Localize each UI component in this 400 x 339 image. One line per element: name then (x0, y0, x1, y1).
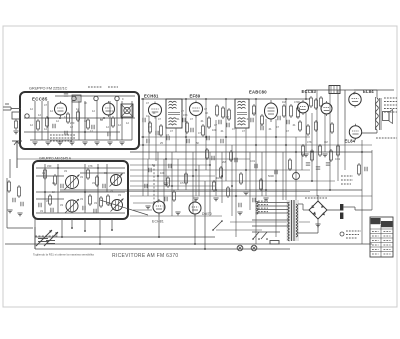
resistor R41 (54, 174, 57, 186)
tube V8 (153, 199, 165, 215)
capacitor C16 (187, 139, 189, 143)
capacitor C14 (147, 139, 149, 143)
wire drop (282, 152, 284, 200)
IF transformer T2 (166, 99, 182, 128)
wire drop (337, 90, 339, 181)
wire drop (225, 99, 227, 181)
capacitor C19 (251, 118, 253, 122)
svg-text:.01: .01 (176, 117, 180, 121)
value label (42, 171, 45, 175)
wire bus 6 (60, 189, 362, 191)
ground (145, 206, 150, 209)
wire AM bus 3 (36, 191, 125, 193)
wire AM vert 4 (97, 164, 99, 213)
resistor R36 (173, 190, 176, 202)
wire bottom vert 2 (61, 219, 63, 237)
ground (263, 198, 268, 201)
resistor R16 (290, 104, 293, 118)
junction dot (157, 164, 233, 187)
ground (107, 142, 112, 145)
svg-text:1M: 1M (282, 100, 286, 104)
AM tuner box GRUPPO AM (33, 161, 128, 219)
resistor R4 (87, 118, 90, 130)
wire bottom vert 3 (99, 219, 101, 244)
svg-text:.01: .01 (268, 127, 272, 131)
value label (152, 163, 155, 167)
capacitor C37 (239, 203, 241, 207)
wire AM vert 3 (84, 164, 86, 213)
wire FM vertical (96, 101, 98, 140)
junction dot (195, 169, 197, 171)
tube V2 ECH81 (149, 102, 162, 119)
resistor R18 (310, 96, 313, 108)
svg-text:RICEVITORE AM FM 6370: RICEVITORE AM FM 6370 (112, 253, 179, 259)
transformer T5 primary (288, 202, 290, 241)
wire drop (311, 113, 313, 181)
capacitor C46 (94, 209, 96, 213)
resistor R27 (307, 124, 310, 136)
ground (243, 192, 248, 195)
tube V1b ECC85 (103, 101, 115, 117)
svg-text:1M: 1M (216, 176, 220, 180)
resistor R21 (311, 149, 314, 162)
junction dot (61, 236, 206, 250)
value label (110, 189, 113, 193)
wire drop (163, 159, 165, 210)
ground (119, 142, 124, 145)
pilot lamp LP1 (237, 245, 243, 251)
wire drop (221, 152, 223, 203)
tube V9 EM70 (189, 200, 201, 216)
resistor R47 (8, 180, 11, 193)
wire FM vertical (41, 101, 43, 140)
ground antenna (13, 131, 18, 134)
junction dot (275, 136, 277, 138)
output transformer T4x (375, 97, 377, 130)
svg-text:ECH81: ECH81 (152, 220, 164, 224)
ground (45, 142, 50, 145)
capacitor C4b (65, 131, 67, 135)
wire drop (231, 145, 233, 216)
value label (100, 117, 103, 121)
value label (80, 197, 83, 201)
junction dot (255, 144, 257, 146)
wire drop (175, 128, 177, 152)
label EABC80 (249, 90, 267, 95)
value label (205, 111, 208, 115)
wire drop (324, 113, 326, 152)
resistor R13 (222, 106, 225, 119)
value label (180, 181, 184, 185)
wire FM vertical (116, 101, 118, 140)
svg-text:.01: .01 (152, 111, 156, 115)
value label (80, 175, 83, 179)
resistor R29 (331, 122, 334, 134)
wire drop (255, 99, 257, 244)
value label (76, 107, 79, 111)
wire drop (329, 93, 331, 190)
wire drop (361, 140, 363, 244)
wire bus 3 (17, 158, 250, 160)
label EM70 (202, 212, 212, 216)
tube V3 EF89 (190, 101, 203, 118)
capacitor C11 (227, 123, 229, 127)
note symbol (340, 232, 344, 236)
value label (160, 171, 165, 175)
value label (204, 107, 207, 111)
wire bus 4 (130, 169, 310, 171)
capacitor C44 (83, 206, 85, 210)
value label (146, 114, 150, 118)
value label (214, 123, 217, 127)
wire FM vertical (131, 101, 133, 140)
label ECH81 (144, 94, 159, 99)
value label (212, 128, 217, 132)
capacitor C19b (261, 126, 263, 130)
ground bridge (315, 224, 320, 227)
value label (126, 121, 129, 125)
capacitor C17 (207, 136, 209, 140)
table header right (381, 221, 393, 227)
junction dot (329, 189, 331, 191)
svg-text:2M: 2M (222, 160, 226, 164)
wire FM bus mid (24, 117, 135, 119)
svg-text:47K: 47K (183, 113, 188, 117)
svg-text:.01: .01 (246, 117, 250, 121)
wire stub (84, 219, 86, 232)
value label (92, 181, 95, 185)
ground (7, 210, 12, 213)
capacitor C42 (13, 198, 15, 202)
svg-text:1M: 1M (324, 140, 328, 144)
value label (84, 119, 87, 123)
wire bottom bus 1 (35, 236, 215, 238)
wire drop (157, 152, 159, 203)
coil L3 FM detector (124, 107, 130, 113)
wire stub (71, 219, 73, 229)
wire bottom vert 6 (204, 181, 206, 249)
value label (170, 129, 173, 133)
value label (92, 109, 95, 113)
svg-text:0.01: 0.01 (250, 159, 256, 163)
wire AM vert 2 (57, 164, 59, 213)
value label (44, 103, 47, 107)
coil L12 (65, 199, 79, 213)
value label (200, 119, 204, 123)
capacitor C8 (143, 118, 145, 122)
capacitor C9c (156, 131, 158, 135)
resistor R19b (320, 96, 323, 108)
value label (64, 115, 67, 119)
resistor R38 (227, 186, 230, 198)
resistor R39b (230, 150, 233, 162)
value label (112, 109, 115, 113)
coil L2 blob (72, 95, 81, 102)
ground (175, 212, 180, 215)
junction dot (215, 189, 217, 191)
tube V1a ECC85 (55, 101, 67, 117)
capacitor C23 cathode (365, 167, 367, 171)
svg-text:500K: 500K (268, 174, 274, 178)
wire drop (344, 120, 346, 170)
wire FM vertical (121, 101, 123, 140)
coil L10 AM aerial (65, 175, 80, 190)
capacitor C33 (149, 168, 151, 172)
capacitor C22 (326, 163, 330, 165)
wire FM vertical (109, 101, 111, 140)
value label (242, 129, 245, 133)
resistor R11 (208, 116, 211, 129)
balun box (12, 112, 20, 119)
value label (160, 141, 163, 145)
label rectifier (305, 197, 327, 199)
resistor R49 (107, 194, 110, 206)
label ECC85 (32, 97, 48, 102)
svg-text:EL84: EL84 (345, 139, 356, 144)
trimmer C3b (115, 96, 119, 100)
resistor R46 (100, 196, 103, 208)
band switch S3 (212, 220, 223, 231)
note text (346, 231, 361, 238)
value label (148, 125, 151, 129)
resistor R2 (67, 112, 70, 124)
capacitor C4 (92, 125, 94, 129)
wire bottom vert 1 (34, 219, 36, 249)
value label (106, 125, 109, 129)
junction dot (235, 195, 237, 197)
mains switch S2 (261, 232, 268, 240)
value label (260, 123, 263, 127)
ground (82, 142, 87, 145)
label output values (384, 98, 397, 112)
value label (183, 113, 188, 117)
capacitor C12 (278, 116, 280, 120)
value label (108, 203, 111, 207)
resistor R7 (149, 121, 152, 134)
capacitor C34 (169, 164, 171, 168)
junction dot (142, 98, 307, 100)
resistor R25 cathode (358, 163, 361, 176)
wire drop (142, 99, 144, 196)
capacitor C21 (316, 167, 320, 169)
value label (50, 109, 53, 113)
wire bottom bus 2 (5, 243, 372, 245)
resistor R10 (202, 124, 205, 137)
label V8 (152, 220, 164, 224)
value label (100, 118, 103, 122)
value label (181, 109, 184, 113)
svg-text:1K: 1K (52, 190, 55, 194)
ground (237, 212, 242, 215)
label cathode values (341, 176, 353, 184)
ground (69, 142, 74, 145)
resistor R5 (112, 116, 115, 128)
wire drop (261, 152, 263, 196)
wire drop (205, 99, 207, 170)
value label (30, 107, 33, 111)
ground (322, 154, 327, 157)
ground (303, 154, 308, 157)
wire HT top (298, 204, 309, 210)
output transformer T4 (376, 98, 381, 130)
resistor R34 (289, 158, 292, 171)
label feedback (376, 137, 397, 139)
wire FM vertical (71, 101, 73, 140)
resistor R24 (337, 144, 340, 157)
svg-text:ECH81: ECH81 (144, 94, 159, 99)
wire drop (295, 137, 297, 200)
tube V7 EL84 (349, 124, 361, 140)
capacitor C10 (219, 120, 221, 124)
wire link (133, 202, 155, 204)
label EF89 (190, 94, 201, 99)
capacitor C4c (108, 132, 110, 136)
svg-text:0.5: 0.5 (180, 181, 184, 185)
value label (196, 141, 199, 145)
value label (286, 129, 289, 133)
wire drop (301, 152, 303, 170)
resistor R33 (185, 172, 188, 185)
junction dot (44, 167, 99, 193)
value label (40, 209, 43, 213)
svg-text:.01: .01 (200, 119, 204, 123)
coil L13 (111, 199, 124, 212)
resistor R1 (46, 116, 49, 128)
pilot lamp LP2 (251, 245, 257, 251)
junction dot (311, 151, 313, 153)
capacitor C36 (165, 197, 167, 201)
ground (213, 198, 218, 201)
ground (32, 142, 37, 145)
choke Z1 (329, 86, 340, 94)
ground (163, 183, 168, 186)
resistor R28 (315, 120, 318, 132)
wire bus 2 (130, 151, 372, 153)
wire drop (147, 159, 149, 196)
trimmer C6 (25, 114, 29, 118)
value label (104, 171, 107, 175)
value label (158, 117, 161, 121)
antenna FM dipole (3, 104, 21, 110)
value label (94, 201, 97, 205)
value label (38, 113, 41, 117)
resistor R42 (87, 168, 90, 180)
value label (47, 164, 52, 168)
capacitor C18 (221, 139, 223, 143)
svg-text:GRUPPO AM 6345 A: GRUPPO AM 6345 A (39, 157, 72, 161)
wire FM bus top (55, 95, 135, 97)
value label (246, 117, 250, 121)
caption title (112, 253, 179, 259)
wire drop (285, 99, 287, 200)
tuning link dashed (153, 165, 155, 205)
wire FM vertical (47, 101, 49, 140)
svg-text:0.1: 0.1 (146, 114, 150, 118)
wire anode V7 (362, 130, 377, 133)
wire anode V6 (354, 90, 377, 98)
capacitor C42b (21, 202, 23, 206)
resistor R48 (18, 185, 21, 198)
resistor R26 (299, 120, 302, 132)
capacitor C31 (255, 164, 257, 168)
capacitor C45 (51, 208, 53, 212)
junction dot (265, 189, 267, 191)
svg-text:5K: 5K (196, 141, 199, 145)
svg-text:47K: 47K (307, 140, 312, 144)
svg-text:ECC83: ECC83 (302, 89, 317, 94)
value label (307, 140, 312, 144)
value label (276, 125, 279, 129)
junction dot (311, 180, 313, 182)
switch S1 (252, 232, 260, 240)
wire AM vert 5 (106, 164, 108, 192)
resistor R8 (160, 124, 163, 137)
trimmer C1 (72, 96, 76, 100)
wire FM bus vlow (30, 139, 132, 141)
wire bus 5 (130, 180, 335, 182)
wire link (133, 209, 152, 211)
resistor R37 (213, 180, 216, 192)
resistor R32 (260, 178, 263, 191)
wire link (216, 229, 262, 231)
antenna AM (12, 141, 22, 168)
junction dot (245, 169, 247, 171)
value label (252, 111, 255, 115)
capacitor C50 electrolytic (340, 204, 343, 211)
wire drop (316, 90, 318, 196)
value label (268, 174, 274, 178)
wire AM bus 2 (36, 175, 64, 177)
capacitor C2 (53, 124, 55, 128)
wire AM bus 3b (36, 198, 64, 200)
svg-text:1K: 1K (205, 111, 208, 115)
value label (30, 123, 33, 127)
value label (222, 160, 226, 164)
value label (56, 119, 59, 123)
value label (52, 181, 55, 185)
IF transformer T3 (235, 99, 249, 128)
table cell text (372, 232, 391, 255)
value label (64, 169, 67, 173)
transformer T5 secondary (296, 204, 298, 237)
svg-text:GRUPPO FM 2252/1C: GRUPPO FM 2252/1C (29, 87, 68, 91)
junction dot (285, 144, 287, 146)
ground (17, 213, 22, 216)
wire bridge top stub (317, 195, 319, 201)
junction dot (205, 136, 207, 138)
tube V4 EABC80 (265, 100, 278, 122)
wire bus AVC (141, 136, 310, 138)
capacitor C38 (253, 198, 255, 202)
value label (176, 117, 180, 121)
junction dot (225, 136, 227, 138)
value label (122, 97, 124, 101)
FM tuner box GRUPPO FM (20, 92, 139, 149)
tube V6 EL84 (349, 91, 361, 107)
wire bridge out (327, 209, 341, 211)
value label (226, 115, 229, 119)
capacitor C15 (167, 136, 169, 140)
wire drop (249, 152, 251, 210)
table header left (371, 218, 381, 224)
wire drop (265, 119, 267, 196)
label GRUPPO FM 2252/1C (29, 87, 68, 91)
resistor R6 antenna (15, 119, 18, 130)
transformer T5 core (287, 200, 300, 241)
resistor R45 (89, 194, 92, 206)
value label (216, 176, 220, 180)
svg-text:220: 220 (70, 121, 75, 125)
